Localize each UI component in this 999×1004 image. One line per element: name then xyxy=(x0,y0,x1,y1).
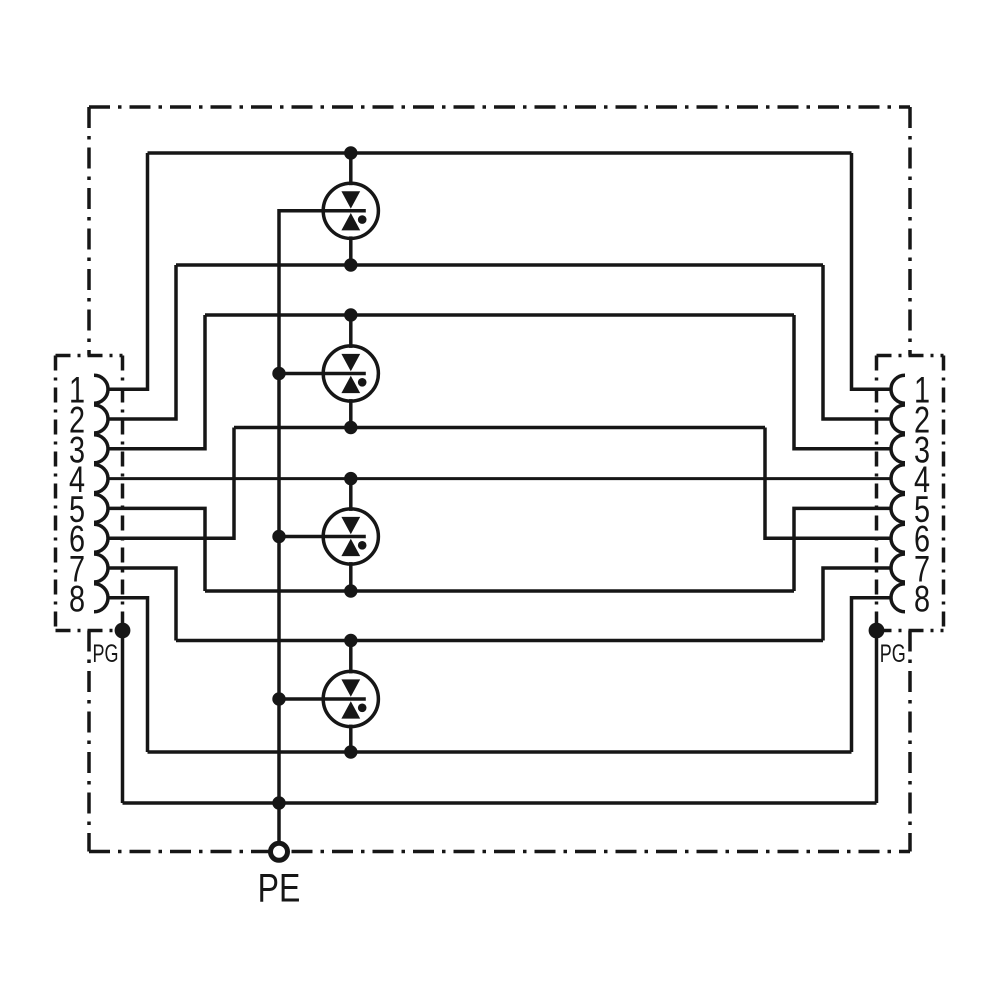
connector J1 pin 6 contact arc xyxy=(94,524,108,552)
wire J2 pin 5 to net xyxy=(794,508,891,591)
surge arrester F1 (3-electrode gas discharge tube) xyxy=(323,153,378,265)
connector J1 pin 4 contact arc xyxy=(94,465,108,493)
wire J2 pin 8 to net xyxy=(852,598,892,752)
net line pair2-a (pins 3-3, arrester F2 top) horizontal wire xyxy=(205,313,794,317)
wire J1 pin 2 to net xyxy=(108,265,176,419)
connector J2 pin 1 contact arc xyxy=(891,375,905,403)
connector J2 pin 2 contact arc xyxy=(891,405,905,433)
connector J2 pin 6 contact arc xyxy=(891,524,905,552)
PE bus vertical wire with arrester F1 gnd electrode tap xyxy=(279,211,366,845)
wire J1 pin 7 to net xyxy=(108,568,176,641)
wire J1 pin 3 to net xyxy=(108,315,205,449)
connector J2 pin 7 contact arc xyxy=(891,554,905,582)
arrester F2 gnd electrode tap wire xyxy=(279,372,366,376)
surge arrester F4 (3-electrode gas discharge tube) xyxy=(323,641,378,753)
junction node PE-bus / F4 xyxy=(272,692,285,705)
junction node F1 top xyxy=(344,146,357,159)
node PG left (dot) xyxy=(115,623,131,639)
net line pair4-b (pins 8-8, arrester F4 bottom) horizontal wire xyxy=(148,750,852,754)
surge arrester F2 (3-electrode gas discharge tube) xyxy=(323,315,378,428)
connector J1 pin 7 contact arc xyxy=(94,554,108,582)
junction node F3 top xyxy=(344,472,357,485)
net line pair3-b (pins 5-5, arrester F3 bottom) horizontal wire xyxy=(205,589,794,593)
wire J2 pin 7 to net xyxy=(823,568,891,641)
connector J2 pin 3 contact arc xyxy=(891,435,905,463)
net line pair3-a (pins 4-4, arrester F3 top) horizontal wire xyxy=(108,477,891,480)
arrester F3 gnd electrode tap wire xyxy=(279,535,366,539)
junction node PE-bus / F2 xyxy=(272,367,285,380)
net line pair4-a (pins 7-7, arrester F4 top) horizontal wire xyxy=(176,639,823,643)
surge arrester F3 (3-electrode gas discharge tube) xyxy=(323,479,378,591)
connector J1 pin 3 contact arc xyxy=(94,435,108,463)
ground collector wire PG-PG xyxy=(123,801,877,805)
connector J2 pin 8 contact arc xyxy=(891,584,905,612)
wire J1 pin 8 to net xyxy=(108,598,148,752)
net line pair1-a (pins 1-1, arrester F1 top) horizontal wire xyxy=(148,151,852,155)
connector J2 pin 4 contact arc xyxy=(891,465,905,493)
wire PG right down xyxy=(875,631,879,804)
wire J2 pin 1 to net xyxy=(852,153,892,389)
connector J1 outline (left, dash-dot) xyxy=(56,356,123,631)
connector J1 pin 1 contact arc xyxy=(94,375,108,403)
connector J1 pin 2 contact arc xyxy=(94,405,108,433)
junction node F3 bottom xyxy=(344,584,357,597)
wire J2 pin 3 to net xyxy=(794,315,891,449)
svg-text:PE: PE xyxy=(258,865,301,910)
wire J1 pin 6 to net xyxy=(108,428,234,539)
connector J1 pin 5 contact arc xyxy=(94,494,108,522)
svg-text:8: 8 xyxy=(69,579,85,620)
junction node F2 top xyxy=(344,308,357,321)
junction node PE bus / PG wire xyxy=(272,796,285,809)
outer enclosure border (dash-dot) xyxy=(89,107,910,852)
wire J2 pin 6 to net xyxy=(765,428,891,539)
wire PG left down xyxy=(121,631,125,804)
connector J1 pin 8 contact arc xyxy=(94,584,108,612)
svg-text:PG: PG xyxy=(880,639,906,668)
junction node F4 top xyxy=(344,634,357,647)
wire J1 pin 1 to net xyxy=(108,153,148,389)
wire J1 pin 5 to net xyxy=(108,508,205,591)
junction node F1 bottom xyxy=(344,258,357,271)
connector J2 pin 5 contact arc xyxy=(891,494,905,522)
wire J2 pin 2 to net xyxy=(823,265,891,419)
node PG right (dot) xyxy=(869,623,885,639)
svg-text:8: 8 xyxy=(914,579,930,620)
svg-text:PG: PG xyxy=(93,639,119,668)
PE terminal (open circle) xyxy=(271,843,288,860)
net line pair2-b (pins 6-6, arrester F2 bottom) horizontal wire xyxy=(234,426,765,430)
net line pair1-b (pins 2-2, arrester F1 bottom) horizontal wire xyxy=(176,263,823,267)
junction node F4 bottom xyxy=(344,745,357,758)
junction node PE-bus / F3 xyxy=(272,530,285,543)
connector J2 outline (right, dash-dot) xyxy=(877,356,944,631)
junction node F2 bottom xyxy=(344,421,357,434)
arrester F4 gnd electrode tap wire xyxy=(279,697,366,701)
